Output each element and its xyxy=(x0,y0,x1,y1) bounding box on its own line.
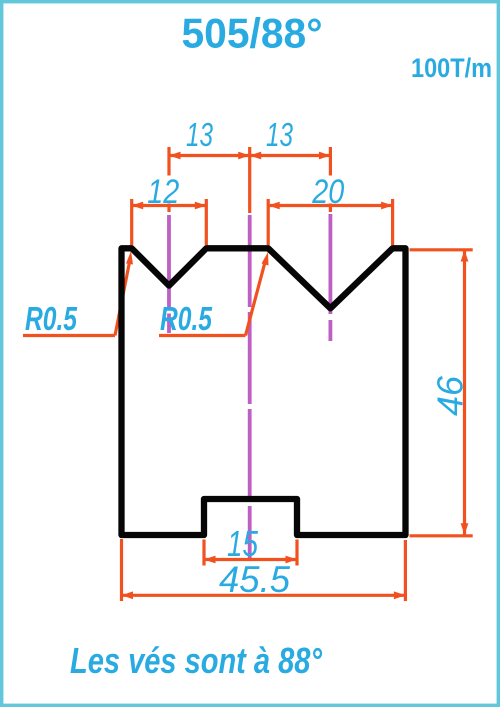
leader R0.5 left underline xyxy=(23,334,115,337)
centerline middle xyxy=(248,215,252,559)
svg-text:13: 13 xyxy=(186,116,213,153)
dim 13 center extension line xyxy=(248,147,251,213)
dim 20 arrows xyxy=(268,202,392,210)
svg-text:505/88°: 505/88° xyxy=(182,10,323,57)
dim 15 right extension line xyxy=(295,540,298,566)
dim 13 right extension line xyxy=(329,147,332,212)
centerline left V xyxy=(167,215,171,333)
dim 13 left extension line xyxy=(167,147,170,212)
dim 12 arrows xyxy=(132,202,207,210)
dim 12 text box xyxy=(149,176,191,204)
dim 46 bottom extension line xyxy=(410,534,473,537)
dim 20 right extension line xyxy=(391,199,394,245)
dim 13 arrows xyxy=(169,152,330,160)
svg-text:15: 15 xyxy=(227,523,259,564)
svg-text:12: 12 xyxy=(147,173,179,211)
dim 12 left extension line xyxy=(130,199,133,245)
dim 46 top extension line xyxy=(410,248,473,251)
dim 45.5 arrows xyxy=(122,591,406,599)
svg-text:R0.5: R0.5 xyxy=(160,300,212,337)
die outline xyxy=(122,248,406,535)
dim 45.5 line xyxy=(122,594,406,597)
svg-text:R0.5: R0.5 xyxy=(25,300,77,337)
dim 20 line xyxy=(268,204,392,207)
dim 45.5 right extension line xyxy=(404,540,407,601)
dim 15 left extension line xyxy=(202,540,205,566)
leader R0.5 right arrowhead xyxy=(262,252,269,266)
leader R0.5 right underline xyxy=(159,334,246,337)
svg-text:20: 20 xyxy=(311,173,344,211)
dim 20 left extension line xyxy=(267,199,270,245)
svg-text:45.5: 45.5 xyxy=(219,559,290,600)
leader R0.5 right diagonal xyxy=(246,264,265,336)
dim 13 line xyxy=(169,154,330,157)
svg-text:13: 13 xyxy=(266,116,293,153)
svg-text:Les vés sont à 88°: Les vés sont à 88° xyxy=(70,640,322,681)
svg-text:100T/m: 100T/m xyxy=(411,53,492,83)
dim 46 arrows xyxy=(461,250,469,535)
dim 15 line xyxy=(204,558,297,561)
dim 20 text box xyxy=(306,176,355,204)
centerline right V xyxy=(328,214,332,341)
dim 15 arrows xyxy=(204,556,297,564)
dim 45.5 left extension line xyxy=(120,539,123,601)
dim 46 line xyxy=(463,250,466,535)
svg-text:46: 46 xyxy=(430,375,471,416)
dim 12 line xyxy=(132,204,207,207)
leader R0.5 left diagonal xyxy=(115,262,130,336)
dim 12 right extension line xyxy=(205,199,208,245)
leader R0.5 left arrowhead xyxy=(126,251,133,265)
